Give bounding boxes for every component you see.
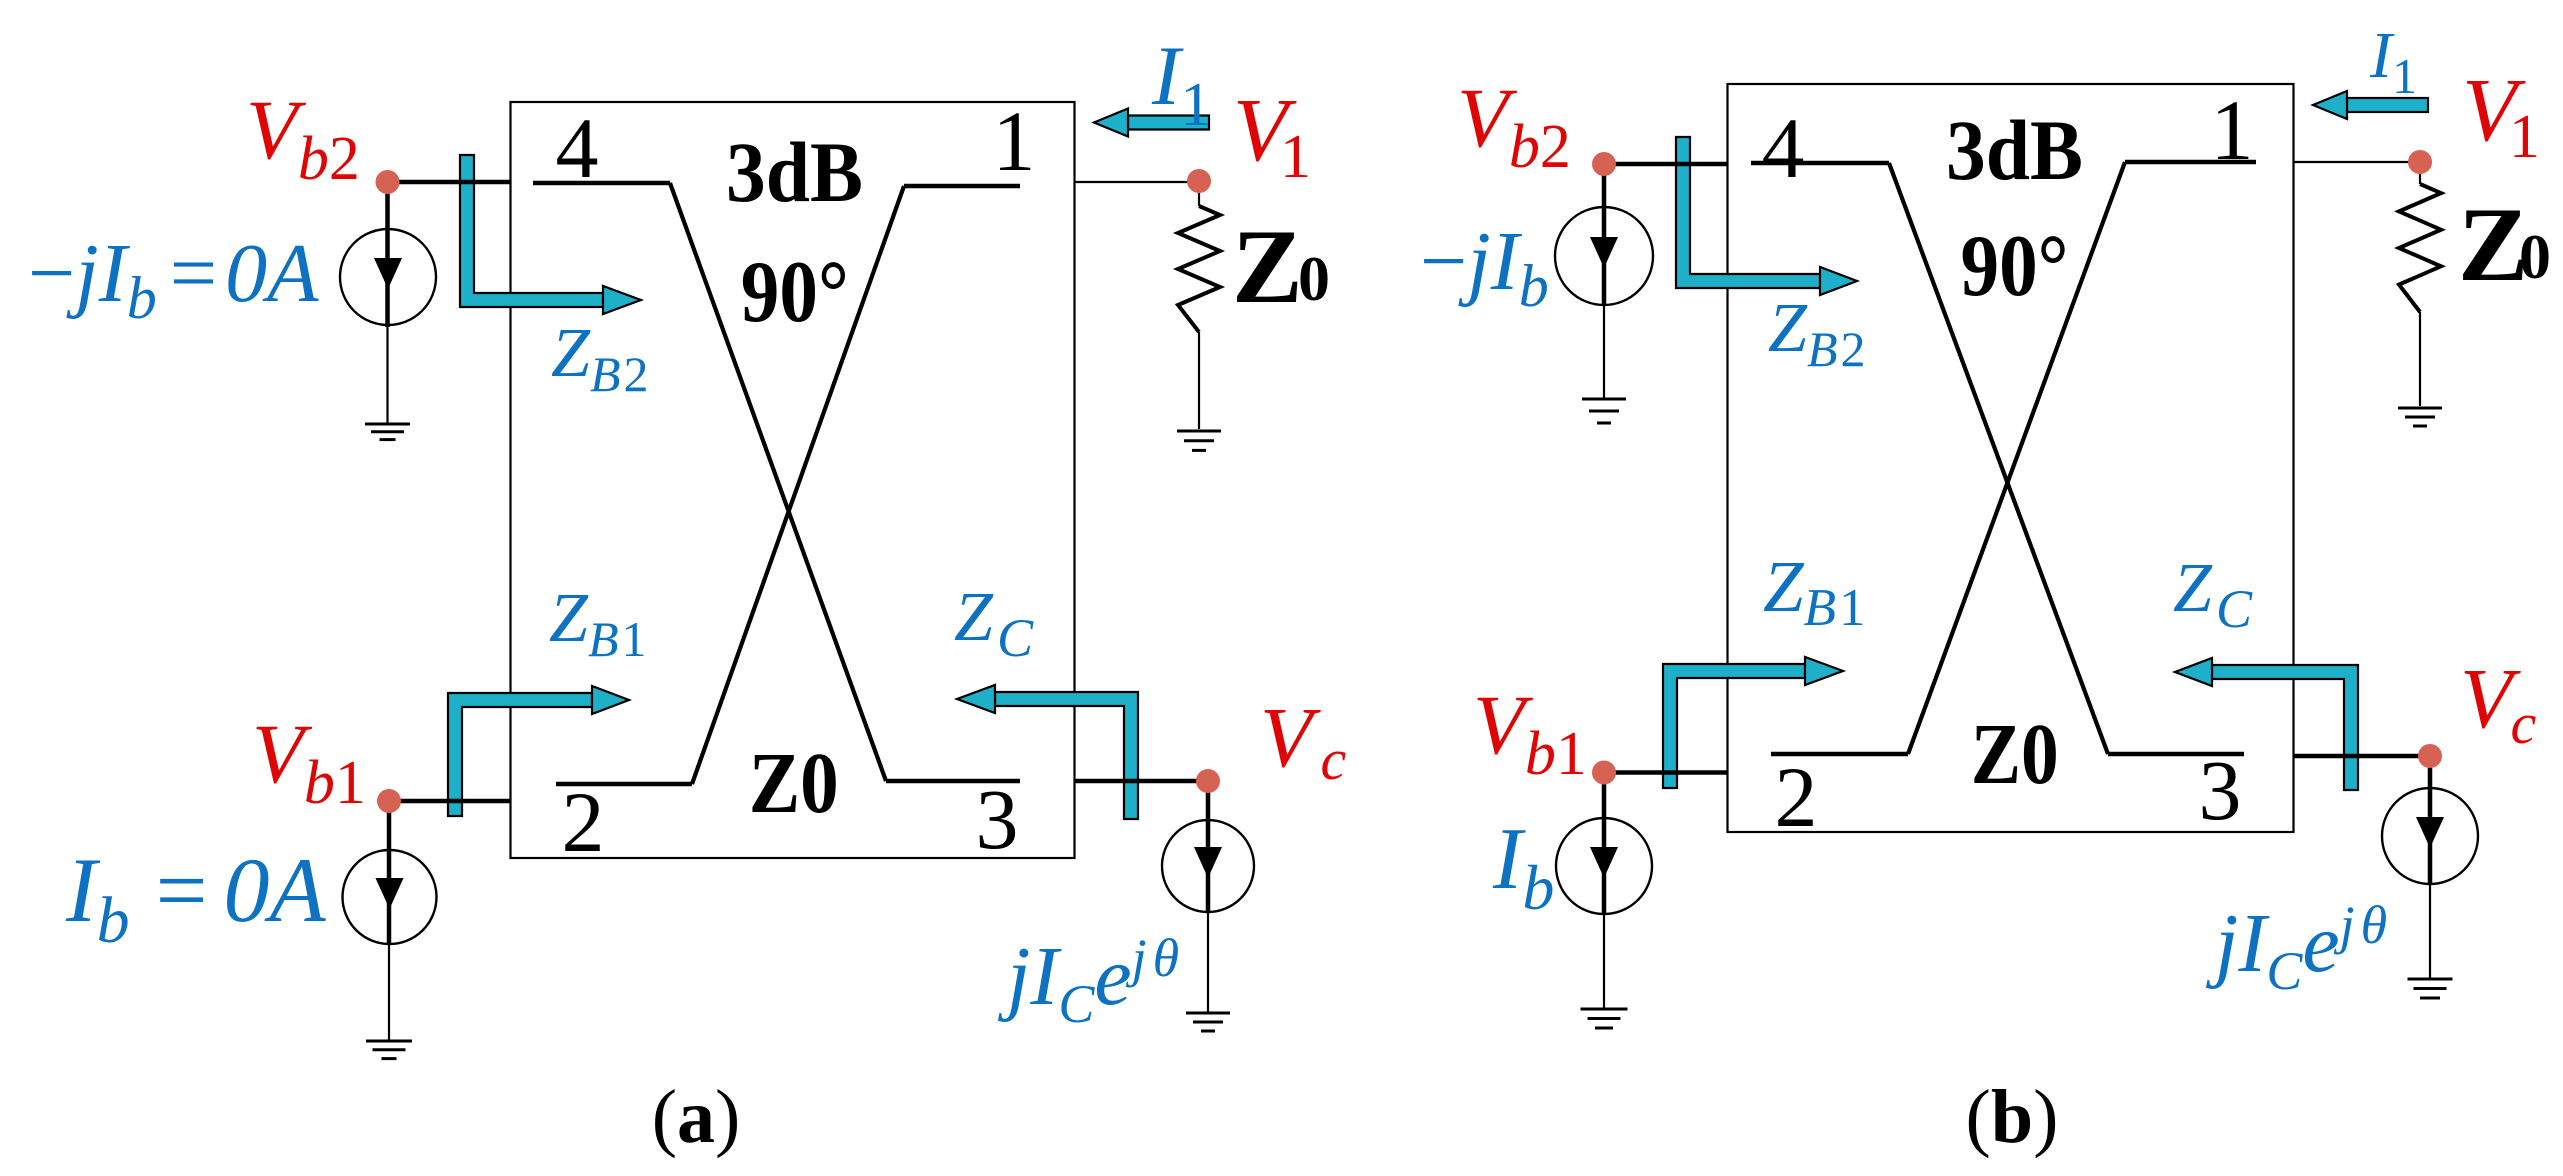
resistor Z0 load (b) xyxy=(2419,174,2421,184)
port 2 line (a) xyxy=(556,782,692,787)
port 2 line (b) xyxy=(1771,752,1908,757)
diagonal 4-to-3 (b) xyxy=(1889,163,2108,754)
svg-text:90°: 90° xyxy=(741,244,849,341)
wire source-to-ground left-top (a) xyxy=(386,325,388,424)
svg-text:3dB: 3dB xyxy=(726,124,863,220)
svg-text:3: 3 xyxy=(976,771,1019,867)
wire box-to-V1 (a) xyxy=(1075,181,1199,183)
current source jICe (a) xyxy=(1162,820,1254,912)
wire source-to-ground left-top (b) xyxy=(1603,305,1605,398)
svg-text:0: 0 xyxy=(2519,221,2551,292)
wire Vc-to-source (a) xyxy=(1206,781,1211,912)
ground right-bottom (b) xyxy=(2408,979,2453,998)
ground V1 load (a) xyxy=(1177,431,1221,450)
wire Vc-to-source (b) xyxy=(2428,756,2433,884)
svg-text:Z0: Z0 xyxy=(749,734,839,831)
coupler box U1 (a) xyxy=(511,102,1075,858)
wire Vb2-to-box (b) xyxy=(1604,162,1727,167)
diagonal 2-to-1 (b) xyxy=(1908,162,2125,754)
ground V1 load (b) xyxy=(2398,408,2442,426)
svg-text:−jIb=0A: −jIb=0A xyxy=(28,227,319,331)
wire source-to-ground right-bottom (b) xyxy=(2429,884,2431,978)
impedance arrow ZC (b) xyxy=(2212,665,2358,790)
svg-text:Z: Z xyxy=(1232,208,1303,325)
port 3 line (b) xyxy=(2108,752,2244,757)
wire Vb2-to-source (a) xyxy=(385,182,390,327)
wire source-to-ground left-bottom (a) xyxy=(388,944,390,1040)
port 4 line (a) xyxy=(533,181,670,186)
svg-text:(b): (b) xyxy=(1966,1075,2059,1159)
svg-text:4: 4 xyxy=(556,100,599,196)
ground left-top (a) xyxy=(365,424,410,440)
current source Ib (a) xyxy=(343,850,437,944)
svg-text:Z0: Z0 xyxy=(1971,705,2059,802)
ground left-top (b) xyxy=(1582,399,1626,423)
svg-text:2: 2 xyxy=(562,774,605,870)
current source Ib (b) xyxy=(1556,818,1652,914)
svg-text:0: 0 xyxy=(1298,243,1330,314)
impedance arrow ZB2 (a) xyxy=(460,155,603,307)
wire Vb1-to-source (a) xyxy=(387,801,392,944)
node Vb2 dot (b) xyxy=(1592,152,1616,176)
svg-text:(a): (a) xyxy=(652,1075,741,1159)
wire Vb1-to-box (a) xyxy=(389,799,510,804)
ground right-bottom (a) xyxy=(1186,1013,1230,1031)
node Vb1 dot (b) xyxy=(1592,761,1616,785)
svg-text:1: 1 xyxy=(993,93,1036,189)
impedance arrow ZC (a) xyxy=(995,692,1138,819)
node Vb2 dot (a) xyxy=(376,170,400,194)
impedance arrow ZB1 (b) xyxy=(1663,664,1805,788)
wire box-to-Vc (b) xyxy=(2294,754,2430,759)
wire Vb1-to-source (b) xyxy=(1602,773,1607,915)
svg-text:2: 2 xyxy=(1775,749,1818,845)
node V1 dot (a) xyxy=(1187,169,1211,193)
port 1 line (b) xyxy=(2125,160,2256,165)
wire Vb2-to-source (b) xyxy=(1602,164,1607,306)
current arrow I1 (a) xyxy=(1128,116,1209,130)
node Vb1 dot (a) xyxy=(377,789,401,813)
current source -jIb (b) xyxy=(1555,207,1653,305)
impedance arrow ZB2 (b) xyxy=(1676,137,1820,288)
ground left-bottom (a) xyxy=(366,1041,412,1059)
svg-text:90°: 90° xyxy=(1961,218,2069,315)
impedance arrow ZB1 (a) xyxy=(448,693,592,816)
coupler box U2 (b) xyxy=(1728,84,2294,832)
port 3 line (a) xyxy=(886,779,1020,784)
svg-text:3dB: 3dB xyxy=(1946,102,2083,198)
current source -jIb (a) xyxy=(340,229,436,325)
node Vc dot (b) xyxy=(2418,744,2442,768)
svg-text:1: 1 xyxy=(2211,82,2254,178)
svg-text:4: 4 xyxy=(1762,100,1805,196)
svg-text:3: 3 xyxy=(2199,742,2242,838)
port 1 line (a) xyxy=(904,184,1020,189)
current arrow I1 (b) xyxy=(2347,98,2428,112)
diagonal 2-to-1 (a) xyxy=(692,186,904,784)
node V1 dot (b) xyxy=(2408,150,2432,174)
wire source-to-ground right-bottom (a) xyxy=(1207,912,1209,1012)
wire Vb2-to-box (a) xyxy=(388,180,511,185)
wire source-to-ground left-bottom (b) xyxy=(1603,914,1605,1008)
node Vc dot (a) xyxy=(1196,769,1220,793)
wire Vb1-to-box (b) xyxy=(1604,770,1727,775)
ground left-bottom (b) xyxy=(1581,1009,1628,1028)
current source jICe (b) xyxy=(2382,788,2478,884)
diagonal 4-to-3 (a) xyxy=(670,183,886,781)
port 4 line (b) xyxy=(1751,161,1889,166)
wire box-to-V1 (b) xyxy=(2294,161,2420,163)
wire box-to-Vc (a) xyxy=(1075,779,1208,784)
resistor Z0 load (a) xyxy=(1198,193,1200,206)
